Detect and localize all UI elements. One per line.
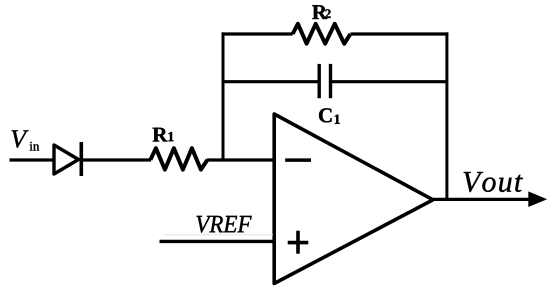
wire feedback right vertical [445, 32, 448, 200]
wire R1 to op-amp inverting input [207, 158, 274, 161]
wire capacitor branch left [222, 80, 319, 83]
node VREF label [197, 216, 252, 233]
faint underline below VREF [163, 234, 273, 236]
op-amp minus input symbol [285, 158, 311, 162]
wire top feedback right segment [350, 32, 448, 35]
output arrowhead [528, 191, 547, 207]
resistor R2 [293, 24, 351, 44]
resistor R1 label [153, 128, 174, 142]
resistor R1 [150, 148, 207, 169]
wire output [433, 198, 532, 201]
node Vout label [464, 172, 523, 192]
wire feedback left vertical [222, 32, 225, 161]
op-amp U1 [274, 114, 433, 284]
wire diode to R1 [81, 158, 151, 161]
wire VREF to op-amp non-inverting input [160, 240, 275, 243]
wire top feedback left segment [222, 32, 293, 35]
wire input left segment [10, 158, 55, 161]
capacitor C1 label [319, 108, 340, 124]
diode D1 [54, 142, 81, 176]
op-amp plus input symbol [288, 231, 309, 254]
node Vin label [12, 130, 40, 150]
resistor R2 label [312, 5, 330, 19]
wire capacitor branch right [332, 80, 449, 83]
capacitor C1 [319, 64, 330, 98]
